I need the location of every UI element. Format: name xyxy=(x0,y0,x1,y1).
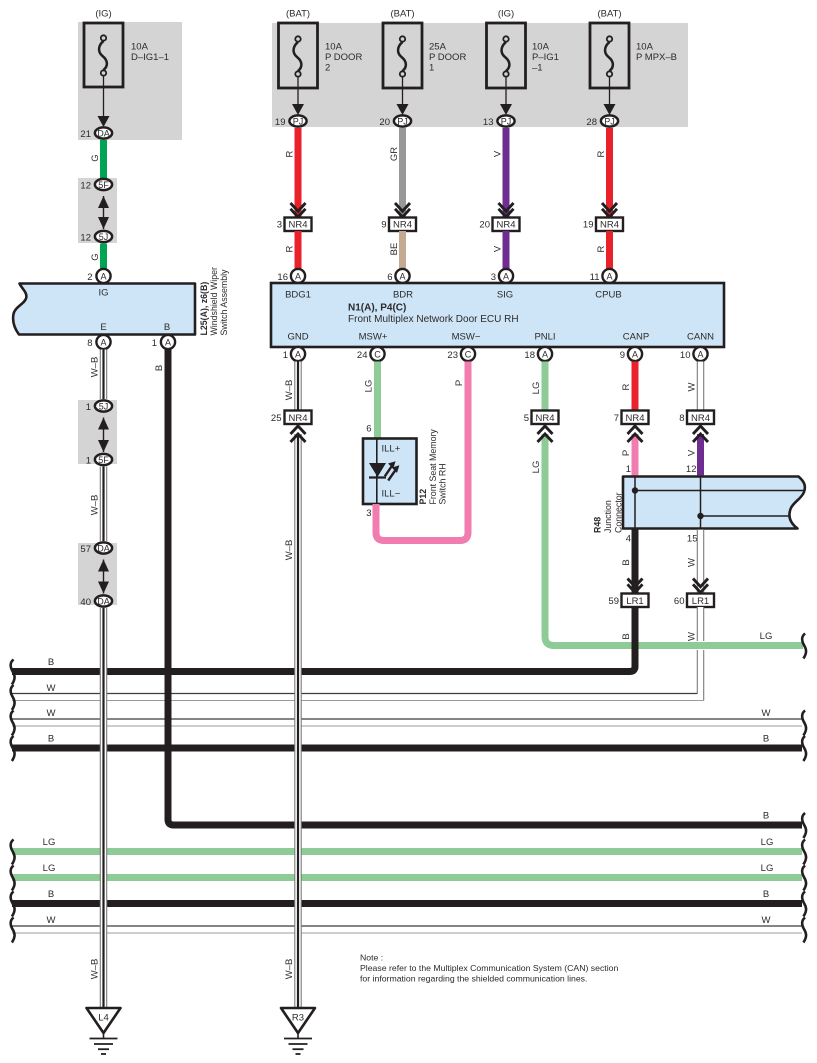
wire fuse1 to connector arrow xyxy=(98,76,110,127)
svg-text:LG: LG xyxy=(531,461,542,474)
svg-text:A: A xyxy=(100,338,106,348)
junction 20 NR4 xyxy=(479,218,519,232)
wire V below NR4 col4 xyxy=(493,231,507,269)
wire break hook bus2 left xyxy=(11,685,15,710)
wire break hook bus5 right xyxy=(802,813,806,838)
wire LG MSW+ to P12 xyxy=(364,362,378,439)
wire W R48 pin15 to LR1 60 xyxy=(687,530,704,593)
junction 59 LR1 xyxy=(608,594,648,608)
svg-text:LG: LG xyxy=(43,863,56,874)
svg-text:LG: LG xyxy=(761,837,774,848)
gray shade box connectors 5F/5J upper xyxy=(78,178,117,243)
wire W-B pin8 to 5J xyxy=(90,350,107,400)
svg-text:for information regarding the: for information regarding the shielded c… xyxy=(360,974,587,984)
svg-text:3: 3 xyxy=(277,220,282,231)
svg-text:P MPX–B: P MPX–B xyxy=(636,52,677,63)
svg-text:W: W xyxy=(762,915,771,926)
svg-text:L4: L4 xyxy=(98,1013,109,1024)
pin 9 A below ECU CANP xyxy=(620,347,642,361)
pin 1 A below ECU GND xyxy=(283,347,305,361)
svg-text:W: W xyxy=(47,915,56,926)
svg-text:3: 3 xyxy=(366,508,371,519)
svg-text:7: 7 xyxy=(614,413,619,424)
svg-text:C: C xyxy=(465,350,472,360)
note text xyxy=(360,953,618,984)
wire break hook bus6 left xyxy=(11,840,15,865)
wire break hook LG right xyxy=(802,634,806,659)
wire fuse3 to connector arrow xyxy=(397,77,409,115)
svg-text:9: 9 xyxy=(620,350,625,361)
wire W LR1 60 down then left bus xyxy=(12,607,704,701)
arrow chevrons into LR1 60 xyxy=(693,579,708,593)
bus B full width y748 xyxy=(12,734,802,749)
arrow chevrons up into NR4 25 xyxy=(291,426,306,442)
svg-text:B: B xyxy=(48,657,54,668)
wire break hook bus1 left xyxy=(11,660,15,685)
svg-text:16: 16 xyxy=(277,272,288,283)
svg-text:3: 3 xyxy=(491,272,496,283)
svg-text:LG: LG xyxy=(531,382,542,395)
arrow chevrons into NR4 col2 xyxy=(291,203,306,217)
wire W-B DA 40 to ground L4 xyxy=(90,608,107,1008)
fuse 10A D-IG1-1 xyxy=(84,23,123,87)
connector 12 5J xyxy=(80,231,112,244)
svg-text:15: 15 xyxy=(687,534,698,545)
component R48 Junction Connector xyxy=(623,477,805,529)
svg-text:CANN: CANN xyxy=(687,332,714,343)
svg-text:R: R xyxy=(621,383,632,390)
wire W-B GND to NR4 25 xyxy=(284,362,301,411)
wire break hook bus8 left xyxy=(11,892,15,917)
arrow chevrons into NR4 col4 xyxy=(499,203,514,217)
svg-text:G: G xyxy=(90,154,101,161)
pin 18 A below ECU PNLI xyxy=(524,347,552,361)
connector 1 5F lower xyxy=(86,454,112,467)
junction 60 LR1 xyxy=(674,594,714,608)
junction 19 NR4 xyxy=(583,218,623,232)
wire fuse5 to connector arrow xyxy=(604,77,616,115)
svg-text:SIG: SIG xyxy=(497,290,513,301)
wire break hook bus9 right xyxy=(802,918,806,943)
fuse 10A P MPX-B xyxy=(590,23,629,88)
svg-text:ILL−: ILL− xyxy=(382,489,401,500)
svg-text:1: 1 xyxy=(626,464,631,475)
wire break hook bus6 right xyxy=(802,840,806,865)
pin 11 A into ECU xyxy=(590,269,617,283)
svg-text:24: 24 xyxy=(357,350,368,361)
svg-text:19: 19 xyxy=(583,220,594,231)
svg-text:BDG1: BDG1 xyxy=(285,290,311,301)
bus LG full width y877 xyxy=(12,863,802,878)
svg-text:PJ: PJ xyxy=(501,117,512,127)
svg-text:B: B xyxy=(763,889,769,900)
arrow chevrons into NR4 col5 xyxy=(602,203,617,217)
junction 9 NR4 xyxy=(381,218,416,232)
svg-text:W–B: W–B xyxy=(284,959,295,980)
svg-text:DA: DA xyxy=(97,129,110,139)
svg-text:A: A xyxy=(697,350,703,360)
pin 6 A into ECU xyxy=(387,269,409,283)
svg-text:PJ: PJ xyxy=(293,117,304,127)
svg-text:W–B: W–B xyxy=(90,959,101,980)
svg-text:2: 2 xyxy=(87,272,92,283)
svg-text:R: R xyxy=(596,150,607,157)
svg-text:LG: LG xyxy=(761,863,774,874)
bus W full width y929 xyxy=(12,915,802,933)
connector 28 PJ xyxy=(586,115,618,128)
connector 40 DA xyxy=(80,595,112,608)
svg-text:R48: R48 xyxy=(593,517,603,533)
svg-text:10: 10 xyxy=(680,350,691,361)
wire R fuse2 column xyxy=(285,128,299,218)
svg-text:B: B xyxy=(164,322,170,333)
svg-text:(BAT): (BAT) xyxy=(597,9,621,20)
svg-text:CPUB: CPUB xyxy=(595,290,621,301)
connector 19 PJ xyxy=(275,115,307,128)
svg-text:B: B xyxy=(763,811,769,822)
wire break hook bus4 right xyxy=(802,736,806,761)
svg-text:A: A xyxy=(606,272,612,282)
svg-text:PJ: PJ xyxy=(397,117,408,127)
svg-text:Switch Assembly: Switch Assembly xyxy=(219,269,229,336)
svg-text:5: 5 xyxy=(524,413,529,424)
wire fuse2 to connector arrow xyxy=(292,77,304,115)
svg-text:GND: GND xyxy=(287,332,308,343)
svg-text:10A: 10A xyxy=(325,42,343,53)
wire W-B NR4 25 to ground R3 xyxy=(284,434,301,1008)
wire R below NR4 col5 xyxy=(596,231,610,269)
svg-text:NR4: NR4 xyxy=(600,220,619,231)
junction 7 NR4 xyxy=(614,411,649,425)
pin 16 A into ECU xyxy=(277,269,305,283)
svg-text:11: 11 xyxy=(590,272,600,283)
svg-text:R: R xyxy=(285,245,296,252)
svg-text:Please refer to the Multiplex: Please refer to the Multiplex Communicat… xyxy=(360,963,618,973)
svg-text:–1: –1 xyxy=(532,62,543,73)
wire P MSW- to P12 pin3 xyxy=(376,362,468,541)
svg-text:13: 13 xyxy=(483,117,494,128)
svg-text:Windshield Wiper: Windshield Wiper xyxy=(209,267,219,336)
bus B full width y903 xyxy=(12,889,802,904)
svg-text:5F: 5F xyxy=(98,455,109,465)
svg-text:60: 60 xyxy=(674,596,685,607)
connector 21 DA xyxy=(80,127,112,140)
component L25 Windshield Wiper Switch Assembly xyxy=(13,284,195,335)
connector 20 PJ xyxy=(379,115,411,128)
label L25(A), z6(B) Windshield Wiper Switch Assembly xyxy=(199,267,229,336)
svg-text:B: B xyxy=(621,559,632,565)
svg-text:C: C xyxy=(374,350,381,360)
wire G DA to 5F xyxy=(90,140,104,178)
svg-text:1: 1 xyxy=(86,402,91,413)
svg-text:P DOOR: P DOOR xyxy=(429,52,466,63)
wire break hook bus4 left xyxy=(11,736,15,761)
gray shade box connectors 5J/5F lower xyxy=(78,400,117,464)
ECU N1(A) P4(C) Front Multiplex Network Door ECU RH xyxy=(271,283,724,347)
svg-text:A: A xyxy=(542,350,548,360)
svg-text:A: A xyxy=(295,272,301,282)
svg-text:(IG): (IG) xyxy=(498,9,514,20)
wire break hook bus7 right xyxy=(802,866,806,891)
svg-text:(BAT): (BAT) xyxy=(286,9,310,20)
svg-text:NR4: NR4 xyxy=(393,220,412,231)
svg-text:G: G xyxy=(90,253,101,260)
gray shade box left fuse area xyxy=(78,22,182,140)
svg-text:P: P xyxy=(454,380,465,386)
svg-text:25: 25 xyxy=(271,413,282,424)
svg-text:DA: DA xyxy=(97,544,110,554)
wire break hook bus7 left xyxy=(11,866,15,891)
svg-text:21: 21 xyxy=(80,129,91,140)
svg-text:40: 40 xyxy=(80,597,91,608)
svg-text:NR4: NR4 xyxy=(288,220,307,231)
svg-text:28: 28 xyxy=(586,117,597,128)
svg-text:P12: P12 xyxy=(418,489,428,505)
wire LG PNLI to NR4 5 xyxy=(531,362,545,411)
svg-text:B: B xyxy=(621,633,632,639)
wire W CANN to NR4 8 xyxy=(687,362,704,411)
svg-text:W: W xyxy=(687,558,698,567)
svg-text:NR4: NR4 xyxy=(496,220,515,231)
svg-text:P: P xyxy=(621,450,632,456)
svg-text:Connector: Connector xyxy=(614,492,624,533)
connector 1 5J lower xyxy=(86,400,112,413)
arrow chevrons up into NR4 5 xyxy=(538,426,553,442)
svg-text:BDR: BDR xyxy=(393,290,413,301)
svg-text:Front Multiplex Network Door E: Front Multiplex Network Door ECU RH xyxy=(348,314,519,325)
svg-text:1: 1 xyxy=(152,338,157,349)
svg-text:8: 8 xyxy=(87,338,92,349)
svg-text:NR4: NR4 xyxy=(535,413,554,424)
junction 8 NR4 xyxy=(679,411,714,425)
wire B from L25 pin1 down then right bus5 xyxy=(168,350,802,826)
arrow chevrons into NR4 col3 xyxy=(395,203,410,217)
pin 2 A into L25 xyxy=(87,269,110,283)
svg-text:B: B xyxy=(48,734,54,745)
svg-text:R: R xyxy=(285,150,296,157)
LED symbol inside P12 xyxy=(369,461,399,480)
fuse 25A P DOOR 1 xyxy=(383,23,422,88)
svg-text:DA: DA xyxy=(97,597,110,607)
wire R CANP to NR4 7 xyxy=(621,362,635,411)
wire R below NR4 col2 xyxy=(285,231,299,269)
svg-text:MSW−: MSW− xyxy=(452,332,481,343)
svg-text:PNLI: PNLI xyxy=(534,332,555,343)
svg-text:D–IG1–1: D–IG1–1 xyxy=(131,52,169,63)
svg-text:1: 1 xyxy=(86,456,91,467)
svg-text:B: B xyxy=(48,889,54,900)
svg-text:6: 6 xyxy=(387,272,392,283)
wire break hook bus3 left xyxy=(11,711,15,736)
svg-text:W: W xyxy=(687,632,698,641)
svg-text:W: W xyxy=(47,708,56,719)
svg-text:20: 20 xyxy=(479,220,490,231)
wire BE below NR4 col3 xyxy=(389,231,403,269)
svg-text:BE: BE xyxy=(389,243,400,256)
svg-text:2: 2 xyxy=(325,62,330,73)
wire fuse4 to connector arrow xyxy=(500,77,512,115)
svg-text:5F: 5F xyxy=(98,180,109,190)
label P12 Front Seat Memory Switch RH xyxy=(418,429,448,505)
connector 13 PJ xyxy=(483,115,515,128)
svg-text:NR4: NR4 xyxy=(691,413,710,424)
svg-text:18: 18 xyxy=(524,350,535,361)
junction 3 NR4 xyxy=(277,218,312,232)
svg-text:W: W xyxy=(687,382,698,391)
ground L4 xyxy=(87,1008,121,1054)
svg-text:W: W xyxy=(762,708,771,719)
double arrow 5F to 5J xyxy=(98,196,109,229)
arrow chevrons up into NR4 8 xyxy=(693,426,708,442)
svg-text:L25(A), z6(B): L25(A), z6(B) xyxy=(199,282,209,336)
pin 23 C below ECU MSW- xyxy=(447,347,475,361)
svg-text:20: 20 xyxy=(379,117,390,128)
svg-text:59: 59 xyxy=(608,596,619,607)
svg-text:A: A xyxy=(632,350,638,360)
gray shade box right fuse area xyxy=(272,23,688,127)
double arrow DA to DA xyxy=(98,560,109,594)
label R48 Junction Connector xyxy=(593,492,624,533)
wire B R48 pin4 to LR1 59 xyxy=(621,529,635,594)
svg-text:5J: 5J xyxy=(99,232,109,242)
wire GR fuse3 column xyxy=(389,128,403,218)
gray shade box connectors DA/DA xyxy=(78,543,117,605)
svg-text:R3: R3 xyxy=(292,1013,304,1024)
svg-text:CANP: CANP xyxy=(623,332,649,343)
svg-text:8: 8 xyxy=(679,413,684,424)
pin 8 A below L25 xyxy=(87,335,110,349)
svg-text:4: 4 xyxy=(626,534,631,545)
svg-text:P DOOR: P DOOR xyxy=(325,52,362,63)
svg-text:LG: LG xyxy=(364,380,375,393)
svg-text:B: B xyxy=(154,365,165,371)
svg-text:10A: 10A xyxy=(636,42,654,53)
wire B LR1 59 down then left bus1 xyxy=(12,607,635,672)
svg-text:NR4: NR4 xyxy=(625,413,644,424)
svg-text:MSW+: MSW+ xyxy=(359,332,388,343)
svg-text:LR1: LR1 xyxy=(692,596,709,607)
svg-text:19: 19 xyxy=(275,117,286,128)
connector 12 5F xyxy=(80,179,112,192)
wire LG NR4 5 down and right xyxy=(531,434,803,646)
svg-text:W–B: W–B xyxy=(90,357,101,378)
svg-text:GR: GR xyxy=(389,147,400,161)
svg-text:9: 9 xyxy=(381,220,386,231)
connector 57 DA xyxy=(80,542,112,555)
ground R3 xyxy=(281,1008,315,1054)
svg-text:10A: 10A xyxy=(131,42,149,53)
svg-text:10A: 10A xyxy=(532,42,550,53)
pin 1 A below L25 xyxy=(152,335,175,349)
svg-text:6: 6 xyxy=(366,424,371,435)
svg-text:Junction: Junction xyxy=(603,500,613,533)
fuse 10A P DOOR 2 xyxy=(279,23,318,88)
svg-text:IG: IG xyxy=(98,288,108,299)
pin 3 A into ECU xyxy=(491,269,513,283)
wire break hook bus8 right xyxy=(802,892,806,917)
svg-text:A: A xyxy=(399,272,405,282)
svg-text:1: 1 xyxy=(283,350,288,361)
arrow chevrons into LR1 59 xyxy=(628,579,643,593)
wire W-B 5F to DA xyxy=(90,467,107,542)
svg-text:V: V xyxy=(493,150,504,157)
svg-text:25A: 25A xyxy=(429,42,447,53)
junction 25 NR4 xyxy=(271,411,312,425)
svg-text:23: 23 xyxy=(447,350,458,361)
svg-text:LR1: LR1 xyxy=(626,596,643,607)
svg-text:B: B xyxy=(763,734,769,745)
svg-text:A: A xyxy=(100,272,106,282)
svg-text:Switch RH: Switch RH xyxy=(438,463,448,504)
svg-text:W–B: W–B xyxy=(90,495,101,516)
bus W full width y722 xyxy=(12,708,802,726)
svg-text:12: 12 xyxy=(80,181,91,192)
svg-text:(BAT): (BAT) xyxy=(390,9,414,20)
wire G 5J to L25 xyxy=(90,244,104,270)
svg-text:1: 1 xyxy=(429,62,434,73)
svg-text:Note :: Note : xyxy=(360,953,383,963)
svg-text:PJ: PJ xyxy=(604,117,615,127)
svg-text:57: 57 xyxy=(80,544,91,555)
svg-text:LG: LG xyxy=(43,837,56,848)
svg-text:V: V xyxy=(493,245,504,252)
bus LG full width y851 xyxy=(12,837,802,852)
svg-text:R: R xyxy=(596,245,607,252)
fuse 10A P-IG1-1 xyxy=(487,23,526,88)
arrow chevrons up into NR4 7 xyxy=(628,426,643,442)
svg-text:W–B: W–B xyxy=(284,380,295,401)
svg-text:A: A xyxy=(165,338,171,348)
svg-text:N1(A), P4(C): N1(A), P4(C) xyxy=(348,303,406,314)
pin 10 A below ECU CANN xyxy=(680,347,708,361)
svg-text:A: A xyxy=(503,272,509,282)
wire V NR4 8 to R48 pin12 xyxy=(687,434,701,475)
svg-text:A: A xyxy=(295,350,301,360)
svg-text:Front Seat Memory: Front Seat Memory xyxy=(428,429,438,505)
pin 24 C below ECU MSW+ xyxy=(357,347,385,361)
svg-text:NR4: NR4 xyxy=(288,413,307,424)
svg-text:LG: LG xyxy=(760,631,773,642)
svg-text:W–B: W–B xyxy=(284,540,295,561)
component P12 Front Seat Memory Switch RH xyxy=(363,439,417,505)
wire V fuse4 column xyxy=(493,128,507,218)
svg-text:E: E xyxy=(100,322,106,333)
svg-text:12: 12 xyxy=(80,233,91,244)
svg-text:V: V xyxy=(687,449,698,456)
svg-text:(IG): (IG) xyxy=(95,9,111,20)
double arrow 5J to 5F lower xyxy=(98,418,109,453)
svg-text:5J: 5J xyxy=(99,402,109,412)
svg-text:W: W xyxy=(47,683,56,694)
svg-text:12: 12 xyxy=(686,464,697,475)
wire break hook bus3 right xyxy=(802,711,806,736)
wire R fuse5 column xyxy=(596,128,610,218)
wire break hook bus9 left xyxy=(11,918,15,943)
wire P NR4 7 to R48 pin1 xyxy=(621,434,635,475)
svg-text:ILL+: ILL+ xyxy=(382,444,401,455)
junction 5 NR4 xyxy=(524,411,559,425)
